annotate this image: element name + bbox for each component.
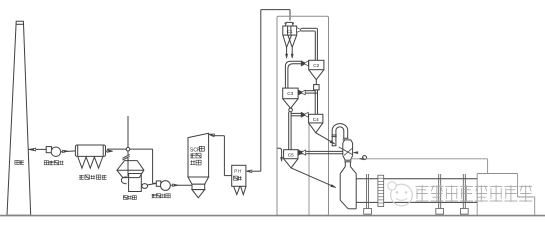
hot fan label [152,194,171,198]
cyclone C5 label [288,152,294,157]
tower inner column [308,123,310,215]
cyclone C5 cone [284,159,298,168]
kiln support pier 1 [364,174,372,214]
C1 dip lines with arrows [286,47,294,58]
SCR reactor body [188,133,209,177]
riser flare to smoke chamber [340,167,356,174]
flue duct fan to chimney with arrow [28,148,46,151]
kiln girth gear [378,175,384,206]
cyclone C3 cone [283,99,298,109]
C5 outlet duct to riser with reducer [298,150,343,155]
C1 outlet nozzle and riser duct from C2 [297,28,318,61]
cyclone C2 cone [309,70,324,80]
riser neck flange [344,160,351,162]
SCR reactor label [190,146,204,165]
PH boiler label [234,168,243,180]
chimney label (smoke stack) [15,160,24,164]
C4 meal pipe diagonal with arrow [316,133,335,144]
tertiary air duct line [351,158,488,174]
riser neck [345,162,350,167]
SCR reactor bottom hopper [188,177,209,198]
preheater exit duct down to PH boiler [261,10,290,172]
raw mill feed riser with node [123,116,130,177]
duct from SCR line to bag filter [107,148,152,150]
bag filter body [75,145,105,156]
riser top flange [343,138,353,143]
C3-to-C2 riser bend duct [285,61,308,88]
gooseneck elbow duct [332,124,348,146]
cyclone C4 body [309,114,323,123]
svg-text:C2: C2 [313,63,319,68]
cyclone C3 body [283,88,298,99]
fan label [44,161,63,165]
C2 dip pipe with flap box [314,80,320,115]
svg-text:C4: C4 [313,117,319,122]
duct hot fan to SCR with arrow [170,184,192,187]
raw mill body [117,161,144,192]
elbow left leg flange and open end [331,135,336,146]
bag filter port arrow [106,150,113,153]
cyclone C2 body [309,60,324,69]
induced draft fan (blower symbol) [46,147,60,157]
cyclone C5 body [284,150,298,159]
SCR inlet arrow at top [209,134,215,137]
svg-text:C1: C1 [287,29,293,34]
kiln support pier 3 [460,174,468,214]
svg-text:C5: C5 [288,152,294,157]
C3 outlet duct to riser [298,90,317,95]
duct fan to bag-filter with arrow [61,150,76,153]
duct SCR top to PH boiler [212,136,232,176]
instrument circle on duct [363,156,367,160]
riser crossing marks [339,147,353,155]
svg-text:PH: PH [234,168,242,173]
C3 dip duct down to C5 [289,112,291,150]
svg-text:C3: C3 [287,91,293,96]
C5 meal pipe diagonal to kiln inlet with arrow [291,168,336,188]
bag filter hopper zigzag [78,157,103,168]
riser taper [343,156,353,161]
riser cylinder [343,143,353,156]
raw mill label [123,196,136,200]
PH boiler inlet duct with arrow [246,170,260,173]
riser inlet arrow [353,152,358,154]
branch duct into C4 with reducer [291,112,308,117]
cyclone C1 twin cones [283,35,297,47]
raw mill outlet oval and line [142,183,157,188]
PH boiler hoppers [234,186,246,194]
rotary kiln shell [356,179,477,203]
cyclone C1 body [283,22,297,35]
watermark text flue-gas denitration solution [416,185,533,202]
watermark logo [388,182,413,206]
high temperature fan (blower symbol) [156,181,170,191]
cyclone C4 cone [309,123,323,133]
chimney stack [7,21,31,215]
preheater tower frame [277,16,329,215]
downcomer duct to hot fan [152,149,154,183]
cyclone C1 label [287,29,293,34]
bag filter label [79,175,106,179]
cyclone C4 label [313,117,319,122]
smoke chamber [340,174,356,209]
cooler and kiln hood outline [477,174,535,216]
cyclone C3 label [287,91,293,96]
C3 tip valve circle [289,108,293,112]
ground line [0,215,545,217]
kiln support pier 2 [436,174,444,214]
line into hot fan [153,182,157,184]
PH boiler body [232,165,246,186]
cyclone C2 label [313,63,319,68]
C5 feed arrow [277,148,283,161]
